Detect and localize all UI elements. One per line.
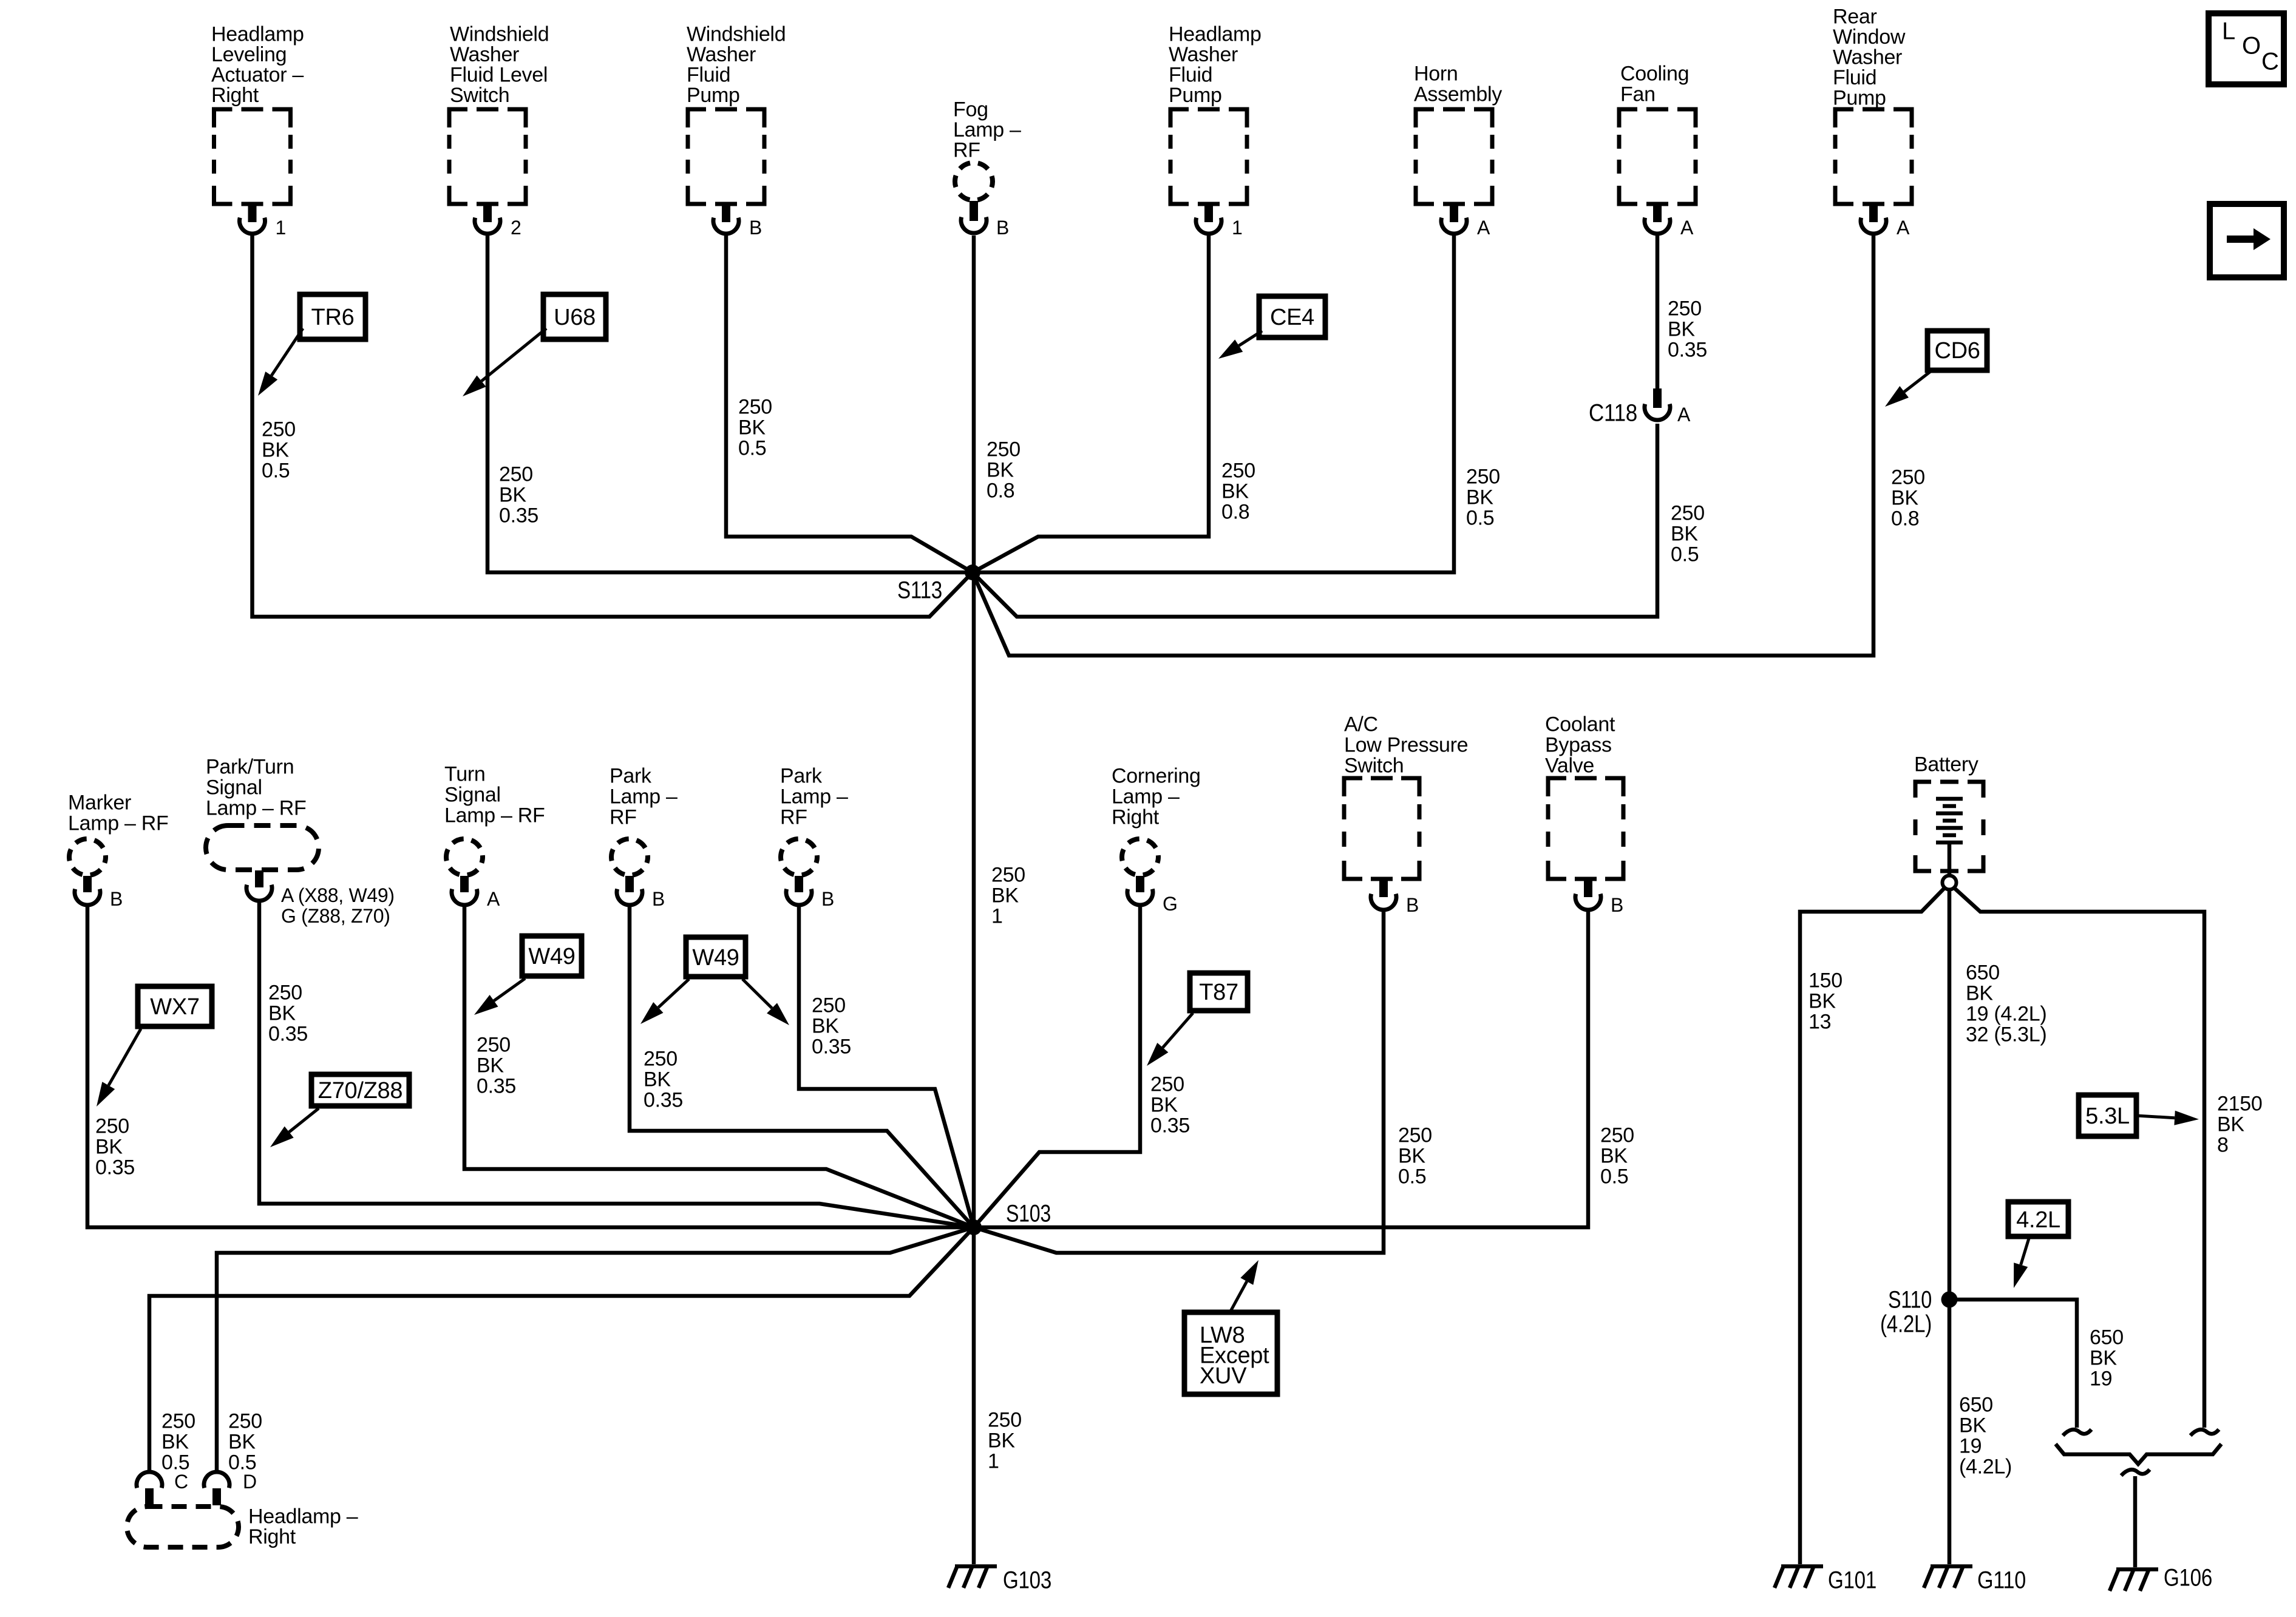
svg-text:19 (4.2L): 19 (4.2L) (1966, 1002, 2046, 1025)
svg-text:0.5: 0.5 (1600, 1165, 1628, 1188)
svg-text:Headlamp –: Headlamp – (248, 1505, 358, 1528)
svg-text:A: A (1677, 404, 1691, 425)
svg-text:250: 250 (1891, 466, 1925, 489)
svg-text:Z70/Z88: Z70/Z88 (318, 1078, 402, 1103)
svg-text:B: B (652, 888, 665, 910)
svg-text:32 (5.3L): 32 (5.3L) (1966, 1023, 2046, 1046)
svg-text:4.2L: 4.2L (2016, 1207, 2060, 1233)
svg-text:0.35: 0.35 (644, 1088, 683, 1111)
svg-text:250: 250 (644, 1047, 678, 1070)
svg-text:Pump: Pump (1833, 86, 1886, 109)
svg-text:8: 8 (2217, 1133, 2229, 1156)
svg-text:BK: BK (1150, 1093, 1178, 1116)
svg-text:Cornering: Cornering (1112, 764, 1201, 787)
svg-text:2150: 2150 (2217, 1092, 2262, 1115)
svg-text:0.8: 0.8 (987, 479, 1014, 502)
svg-text:1: 1 (991, 904, 1003, 927)
svg-text:250: 250 (1221, 459, 1255, 482)
svg-text:Turn: Turn (444, 762, 485, 785)
svg-text:Lamp –: Lamp – (1112, 785, 1180, 808)
svg-text:CD6: CD6 (1934, 338, 1980, 364)
svg-text:BK: BK (644, 1068, 671, 1091)
svg-text:Washer: Washer (1169, 43, 1238, 66)
svg-text:250: 250 (812, 994, 846, 1017)
svg-text:250: 250 (1671, 501, 1705, 524)
svg-text:650: 650 (1966, 961, 2000, 984)
svg-text:Lamp – RF: Lamp – RF (206, 796, 306, 819)
svg-text:250: 250 (1600, 1124, 1634, 1147)
svg-text:B: B (821, 888, 834, 910)
svg-text:XUV: XUV (1200, 1363, 1247, 1389)
svg-text:250: 250 (1150, 1073, 1184, 1096)
svg-text:BK: BK (1809, 989, 1836, 1012)
svg-text:Fluid: Fluid (1169, 63, 1212, 86)
svg-text:Lamp –: Lamp – (610, 785, 678, 808)
svg-text:0.35: 0.35 (812, 1035, 851, 1058)
svg-text:G110: G110 (1977, 1567, 2026, 1594)
svg-text:G103: G103 (1003, 1567, 1051, 1594)
svg-text:A/C: A/C (1344, 713, 1378, 736)
svg-text:BK: BK (1600, 1144, 1628, 1167)
svg-text:1: 1 (276, 217, 287, 239)
svg-text:Fluid Level: Fluid Level (450, 63, 548, 86)
svg-text:5.3L: 5.3L (2085, 1103, 2130, 1129)
svg-text:Washer: Washer (450, 43, 519, 66)
svg-text:BK: BK (1668, 317, 1695, 341)
svg-text:150: 150 (1809, 969, 1843, 992)
svg-text:BK: BK (991, 884, 1019, 907)
svg-text:Signal: Signal (206, 776, 262, 799)
svg-text:B: B (749, 217, 762, 239)
svg-text:Window: Window (1833, 25, 1906, 49)
svg-text:0.35: 0.35 (268, 1022, 308, 1045)
svg-text:0.5: 0.5 (1671, 543, 1699, 566)
svg-text:Windshield: Windshield (687, 22, 786, 46)
svg-text:A (X88, W49): A (X88, W49) (281, 884, 395, 906)
svg-text:TR6: TR6 (311, 305, 355, 330)
svg-text:Bypass: Bypass (1545, 733, 1612, 756)
svg-text:250: 250 (268, 981, 302, 1004)
svg-text:Park: Park (610, 764, 652, 787)
svg-text:L: L (2222, 18, 2235, 45)
svg-text:Pump: Pump (1169, 84, 1222, 107)
svg-text:Leveling: Leveling (211, 43, 287, 66)
svg-text:CE4: CE4 (1270, 305, 1314, 330)
svg-text:C: C (2261, 49, 2279, 75)
svg-text:W49: W49 (692, 945, 739, 971)
svg-text:Park: Park (780, 764, 823, 787)
svg-text:WX7: WX7 (150, 994, 199, 1020)
svg-text:250: 250 (991, 863, 1025, 886)
svg-text:RF: RF (953, 138, 980, 161)
svg-text:S113: S113 (897, 577, 942, 604)
svg-text:0.8: 0.8 (1891, 507, 1919, 530)
svg-text:BK: BK (268, 1002, 296, 1025)
svg-text:250: 250 (988, 1408, 1022, 1431)
svg-text:BK: BK (1966, 981, 1993, 1005)
svg-text:Washer: Washer (687, 43, 756, 66)
svg-text:Valve: Valve (1545, 754, 1594, 777)
svg-text:BK: BK (988, 1429, 1015, 1452)
svg-text:Horn: Horn (1414, 62, 1458, 85)
svg-text:B: B (996, 217, 1009, 239)
svg-text:BK: BK (1671, 522, 1698, 545)
svg-text:Fog: Fog (953, 98, 988, 121)
svg-text:(4.2L): (4.2L) (1880, 1311, 1932, 1338)
svg-text:Cooling: Cooling (1620, 62, 1689, 85)
svg-text:0.5: 0.5 (1398, 1165, 1426, 1188)
svg-text:BK: BK (2090, 1346, 2117, 1369)
svg-text:BK: BK (1466, 486, 1493, 509)
svg-text:Lamp – RF: Lamp – RF (68, 812, 168, 835)
svg-text:Washer: Washer (1833, 46, 1902, 69)
svg-text:BK: BK (1398, 1144, 1425, 1167)
svg-text:BK: BK (1221, 480, 1249, 503)
svg-text:0.35: 0.35 (499, 504, 538, 527)
svg-text:0.35: 0.35 (1668, 338, 1707, 361)
svg-text:Headlamp: Headlamp (211, 22, 304, 46)
svg-text:A: A (1897, 217, 1910, 239)
svg-text:S110: S110 (1888, 1287, 1932, 1314)
svg-text:250: 250 (738, 395, 772, 418)
svg-text:BK: BK (2217, 1113, 2244, 1136)
svg-text:0.5: 0.5 (738, 436, 766, 459)
svg-text:250: 250 (1466, 465, 1500, 488)
svg-text:BK: BK (477, 1054, 504, 1077)
svg-text:Park/Turn: Park/Turn (206, 755, 294, 778)
svg-text:250: 250 (477, 1033, 511, 1056)
svg-text:Lamp – RF: Lamp – RF (444, 804, 545, 827)
svg-text:Fan: Fan (1620, 83, 1656, 106)
svg-text:BK: BK (738, 416, 766, 439)
svg-text:RF: RF (610, 805, 637, 829)
svg-text:O: O (2242, 33, 2261, 59)
svg-text:250: 250 (1398, 1124, 1432, 1147)
svg-text:S103: S103 (1006, 1201, 1051, 1227)
svg-text:BK: BK (499, 483, 526, 506)
svg-text:650: 650 (2090, 1326, 2124, 1349)
svg-text:1: 1 (1232, 217, 1243, 239)
svg-text:Switch: Switch (450, 84, 509, 107)
svg-text:Fluid: Fluid (1833, 66, 1877, 89)
svg-text:BK: BK (161, 1430, 189, 1453)
svg-text:13: 13 (1809, 1010, 1831, 1033)
svg-text:2: 2 (511, 217, 521, 239)
svg-text:A: A (1680, 217, 1694, 239)
svg-text:250: 250 (1668, 297, 1702, 320)
svg-text:0.35: 0.35 (477, 1074, 516, 1097)
svg-text:Actuator –: Actuator – (211, 63, 304, 86)
svg-text:Battery: Battery (1914, 753, 1978, 776)
svg-text:W49: W49 (528, 944, 575, 969)
svg-text:B: B (1611, 894, 1623, 916)
svg-text:Coolant: Coolant (1545, 713, 1615, 736)
svg-text:Right: Right (248, 1525, 296, 1548)
svg-text:250: 250 (95, 1114, 129, 1137)
svg-text:Marker: Marker (68, 791, 131, 814)
svg-text:Switch: Switch (1344, 754, 1404, 777)
svg-text:Headlamp: Headlamp (1169, 22, 1262, 46)
svg-text:G: G (1163, 893, 1178, 915)
svg-text:Right: Right (1112, 805, 1160, 829)
svg-text:0.5: 0.5 (262, 459, 290, 482)
svg-text:U68: U68 (554, 305, 596, 330)
svg-text:Rear: Rear (1833, 5, 1877, 28)
svg-text:G101: G101 (1828, 1567, 1877, 1594)
svg-text:Lamp –: Lamp – (953, 118, 1021, 141)
svg-text:Signal: Signal (444, 783, 501, 806)
svg-text:250: 250 (262, 418, 296, 441)
svg-text:0.35: 0.35 (95, 1156, 135, 1179)
svg-text:G106: G106 (2164, 1565, 2212, 1592)
svg-text:250: 250 (161, 1409, 195, 1432)
svg-text:G (Z88, Z70): G (Z88, Z70) (281, 905, 390, 927)
svg-text:250: 250 (499, 463, 533, 486)
svg-text:B: B (1406, 894, 1419, 916)
svg-text:BK: BK (262, 438, 289, 461)
svg-text:19: 19 (2090, 1367, 2112, 1390)
svg-text:Windshield: Windshield (450, 22, 549, 46)
svg-text:RF: RF (780, 805, 807, 829)
svg-text:Fluid: Fluid (687, 63, 730, 86)
svg-text:C: C (174, 1471, 188, 1493)
svg-text:Pump: Pump (687, 84, 740, 107)
svg-text:BK: BK (1959, 1414, 1986, 1437)
svg-text:BK: BK (228, 1430, 256, 1453)
svg-text:250: 250 (987, 438, 1021, 461)
svg-text:(4.2L): (4.2L) (1959, 1455, 2012, 1478)
svg-text:19: 19 (1959, 1434, 1982, 1457)
svg-text:250: 250 (228, 1409, 262, 1432)
svg-text:A: A (1477, 217, 1490, 239)
svg-text:Right: Right (211, 84, 259, 107)
svg-text:BK: BK (987, 458, 1014, 481)
svg-text:0.8: 0.8 (1221, 500, 1249, 523)
svg-text:BK: BK (812, 1014, 839, 1037)
svg-text:Lamp –: Lamp – (780, 785, 848, 808)
svg-text:D: D (243, 1471, 257, 1493)
svg-text:BK: BK (95, 1135, 123, 1158)
svg-text:Assembly: Assembly (1414, 83, 1502, 106)
svg-text:C118: C118 (1589, 400, 1637, 427)
svg-text:A: A (487, 888, 500, 910)
svg-text:1: 1 (988, 1449, 999, 1473)
svg-text:Low Pressure: Low Pressure (1344, 733, 1468, 756)
svg-text:0.35: 0.35 (1150, 1114, 1190, 1137)
svg-text:650: 650 (1959, 1393, 1993, 1416)
svg-text:T87: T87 (1199, 980, 1238, 1005)
svg-text:B: B (110, 888, 123, 910)
svg-text:0.5: 0.5 (1466, 506, 1494, 529)
svg-text:BK: BK (1891, 486, 1918, 509)
